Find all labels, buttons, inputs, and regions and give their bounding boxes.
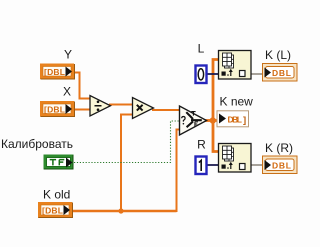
wire K old to select f (177, 130, 182, 213)
indicator K new (217, 111, 249, 127)
svg-text:[DBL: [DBL (44, 105, 65, 115)
control terminal K old (38, 202, 73, 218)
wire index2 to K (R) (251, 164, 263, 166)
svg-text:K (L): K (L) (265, 48, 291, 62)
select function (180, 106, 207, 135)
svg-text:DBL: DBL (272, 160, 291, 170)
svg-text:Y: Y (64, 48, 72, 62)
svg-text:R: R (197, 138, 206, 152)
constant L value 0 (196, 66, 207, 84)
indicator K (R) (263, 156, 298, 174)
control terminal Y (40, 64, 75, 80)
wire K old branch to multiply (121, 115, 134, 212)
svg-text:L: L (198, 42, 205, 56)
control terminal X (40, 101, 75, 117)
svg-text:K new: K new (220, 95, 254, 109)
wire array up to index1 (213, 60, 219, 122)
wire R to index2 (207, 164, 220, 166)
wire K old main run (69, 210, 177, 212)
wire select out to K new (205, 119, 218, 122)
wire X to divide (72, 109, 91, 111)
wire index1 to K (L) (251, 73, 263, 75)
svg-text:[DBL: [DBL (42, 206, 63, 216)
junction select out (210, 117, 216, 123)
svg-text:DBL: DBL (228, 115, 243, 125)
svg-text:X: X (63, 85, 71, 99)
index array 2 (219, 144, 252, 173)
index array 1 (219, 51, 252, 80)
wire L to index1 (207, 73, 220, 75)
svg-text:DBL: DBL (272, 68, 291, 78)
svg-text:]: ] (243, 115, 246, 126)
wire Y to divide (73, 73, 91, 99)
svg-text:K old: K old (43, 188, 70, 202)
junction K old branch (118, 208, 123, 213)
wire array down to index2 (213, 120, 219, 152)
svg-text:K (R): K (R) (265, 141, 293, 155)
indicator K (L) (263, 64, 298, 82)
multiply function (133, 98, 154, 119)
wire boolean dotted (74, 121, 180, 163)
wire multiply to select t (152, 109, 181, 111)
wire divide to multiply (109, 104, 134, 106)
control terminal Калибровать TF (44, 155, 74, 170)
divide function (90, 96, 111, 117)
constant R value 1 (196, 157, 207, 175)
svg-text:Калибровать: Калибровать (1, 137, 73, 151)
svg-text:[DBL: [DBL (44, 67, 65, 77)
